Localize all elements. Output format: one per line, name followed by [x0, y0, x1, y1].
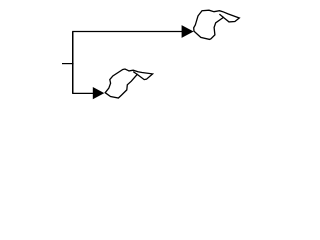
- wire input stub: [62, 63, 74, 65]
- cloud bottom (logic network): [105, 69, 152, 98]
- cloud top (logic network): [194, 10, 240, 39]
- wire top branch: [72, 31, 182, 33]
- wire vertical fanout: [72, 32, 74, 94]
- arrowhead top: [182, 25, 194, 38]
- arrowhead bottom: [93, 87, 105, 99]
- wire bottom branch: [72, 92, 93, 94]
